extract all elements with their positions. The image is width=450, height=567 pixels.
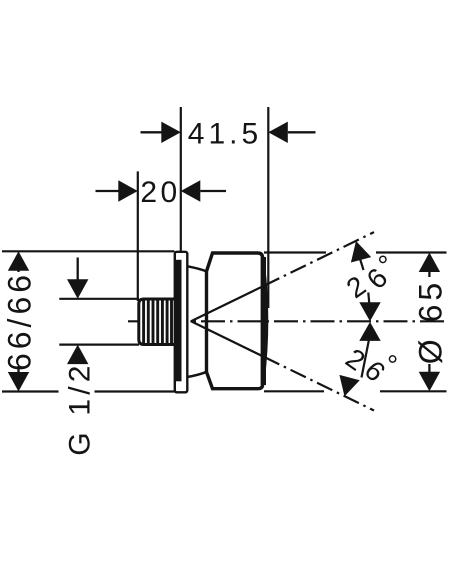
- dimension 41.5: right leader tail: [288, 131, 316, 133]
- wire: horizontal centerline (dash-dot axis): [128, 320, 447, 322]
- dimension dia65: top arrow: [419, 253, 440, 273]
- dimension G1/2: top tick line: [59, 298, 139, 300]
- dimension 20: right arrow: [181, 180, 201, 201]
- dimension 41.5: right arrow: [268, 122, 288, 143]
- angle dim upper: arrow at centerline (bowtie top): [359, 302, 380, 321]
- dimension 20: left arrow: [118, 180, 138, 201]
- dimension 66/66: dimension line lower segment: [17, 366, 19, 374]
- dimension dia65: top tick line right segment: [376, 251, 447, 253]
- svg-text:G 1/2: G 1/2: [64, 361, 97, 455]
- dimension G1/2: upper leader tail: [77, 258, 79, 281]
- body left edge line: [205, 271, 207, 372]
- body main outline: [207, 253, 263, 389]
- dimension 41.5: left arrow: [161, 122, 181, 143]
- dimension 66/66: top arrow: [8, 251, 29, 270]
- angle dim lower: arrow at centerline (bowtie bottom): [359, 322, 380, 341]
- label 26 deg upper: [341, 249, 403, 304]
- dimension dia65: top tick line left segment: [264, 251, 326, 253]
- dimension 66/66: bottom tick line left part: [2, 390, 59, 392]
- dimension G1/2: upper arrow: [67, 279, 88, 299]
- node: spray vertex on centerline: [190, 321, 192, 323]
- dimension dia65: bottom arrow: [419, 372, 440, 392]
- ball face crescent: [264, 264, 267, 379]
- label 26 deg lower: [340, 342, 403, 387]
- wall flange solid section bar: [176, 260, 182, 382]
- thread line 3: [152, 300, 155, 345]
- angle dim upper: arrow on diagonal: [346, 238, 371, 262]
- thread line 4: [156, 300, 159, 345]
- thread line 7: [170, 300, 173, 345]
- svg-text:66/66: 66/66: [2, 271, 38, 371]
- wall flange plate outline: [175, 252, 188, 392]
- angle dim upper: arc tail near centerline: [368, 293, 369, 304]
- dimension dia65: dimension line upper segment: [428, 270, 430, 277]
- dimension 41.5: left extension line: [180, 107, 182, 252]
- neck bottom profile: [187, 372, 206, 377]
- dimension 20: left extension line: [137, 171, 139, 301]
- dimension dia65: bottom tick line right segment: [380, 390, 447, 392]
- thread line 1: [142, 300, 145, 345]
- angle dim lower: arrow on diagonal: [334, 375, 359, 399]
- dimension dia65: bottom tick line left segment: [264, 390, 324, 392]
- dimension 41.5: right extension line: [267, 107, 269, 308]
- dimension 41.5: left leader tail: [141, 131, 163, 133]
- dimension G1/2: bottom tick line: [59, 344, 139, 346]
- angle dim upper: arc tail near text: [359, 254, 364, 270]
- wire: lower 26-degree spray axis (solid inside body, dash-dot outside): [191, 321, 374, 410]
- dimension 20: left leader tail: [96, 190, 120, 192]
- dimension 66/66: top tick line: [2, 250, 175, 252]
- svg-text:20: 20: [140, 176, 180, 209]
- dimension dia65: dimension line lower segment: [428, 364, 430, 374]
- body face thick edge: [261, 257, 266, 385]
- thread G1/2 nipple outline: [139, 299, 175, 345]
- thread line 6: [166, 300, 169, 345]
- wire: upper 26-degree spray axis (solid inside body, dash-dot outside): [191, 232, 374, 321]
- dimension 20: right leader tail: [200, 190, 226, 192]
- neck top profile: [187, 266, 206, 271]
- thread line 2: [147, 300, 150, 345]
- svg-text:41.5: 41.5: [188, 118, 262, 151]
- svg-text:Ø 65: Ø 65: [413, 279, 449, 364]
- dimension 66/66: bottom arrow: [8, 372, 29, 392]
- dimension 66/66: bottom tick line right part: [95, 390, 175, 392]
- angle dim lower: arc tail near centerline: [362, 341, 369, 378]
- dimension G1/2: lower arrow: [67, 345, 88, 365]
- dimension 66/66: dimension line upper segment: [17, 268, 19, 272]
- thread line 5: [161, 300, 164, 345]
